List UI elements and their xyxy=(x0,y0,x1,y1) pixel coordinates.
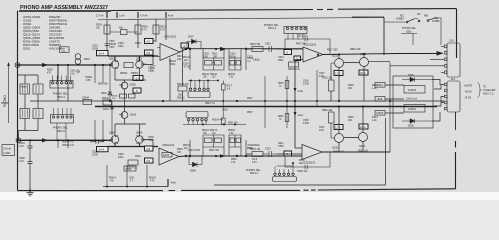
junction dots rails xyxy=(109,100,111,102)
svg-text:4.7mA: 4.7mA xyxy=(140,14,148,18)
border right xyxy=(456,9,457,189)
voltage box 23.6 xyxy=(359,70,368,75)
resistor R514 xyxy=(128,160,138,165)
svg-text:1mA: 1mA xyxy=(119,14,125,18)
capacitor C50x box R xyxy=(33,109,43,119)
op-amp IC502(1/2) xyxy=(159,148,179,165)
svg-text:Q511: Q511 xyxy=(332,55,339,58)
svg-text:S501-2: S501-2 xyxy=(177,97,185,99)
svg-text:4.5: 4.5 xyxy=(146,159,151,163)
capacitor C503 label + flag xyxy=(77,70,80,73)
EQ network 2 xyxy=(229,49,241,70)
svg-text:C535: C535 xyxy=(247,147,253,150)
wire switch feeds xyxy=(384,18,441,45)
svg-text:0.01: 0.01 xyxy=(19,160,24,163)
power rail top xyxy=(98,18,384,56)
svg-text:D507: D507 xyxy=(188,36,194,39)
svg-text:1800p: 1800p xyxy=(253,59,260,62)
svg-text:C5-8: C5-8 xyxy=(252,159,258,161)
current arrow 4mA bottom xyxy=(167,179,169,187)
capacitor C514 shunt xyxy=(189,49,191,70)
connector PHA-8 box L xyxy=(20,84,30,94)
svg-text:R515 15k: R515 15k xyxy=(250,43,261,46)
op-amp IC502(2/2) xyxy=(302,145,322,160)
arrow R input xyxy=(42,138,48,142)
svg-text:MC: MC xyxy=(417,13,421,16)
svg-text:S501: S501 xyxy=(23,47,31,51)
svg-text:R515A: R515A xyxy=(228,73,235,76)
svg-text:+B18: +B18 xyxy=(377,98,383,101)
connector S501-1 xyxy=(50,81,73,89)
svg-text:-14.4: -14.4 xyxy=(98,148,105,152)
svg-text:SUB80: SUB80 xyxy=(432,20,440,23)
svg-text:23.6: 23.6 xyxy=(360,71,366,75)
wires FET stage xyxy=(115,56,153,101)
svg-text:IC502(2/2): IC502(2/2) xyxy=(303,161,315,165)
svg-text:4.5: 4.5 xyxy=(146,40,151,44)
svg-text:-8: -8 xyxy=(135,89,138,93)
svg-text:R541A: R541A xyxy=(109,177,116,180)
svg-text:C532: C532 xyxy=(163,154,170,157)
capacitor C542 box xyxy=(124,166,136,171)
svg-text:R527: R527 xyxy=(247,97,253,100)
svg-text:1/50: 1/50 xyxy=(148,139,153,142)
connector S501-2 lower xyxy=(186,112,208,118)
svg-text:MM: MM xyxy=(424,15,428,18)
voltage box -14.4 xyxy=(97,51,109,56)
capacitor C503A symbol xyxy=(90,140,104,145)
rail drop lower xyxy=(294,107,296,149)
border top xyxy=(111,9,457,11)
svg-text:R550A 100: R550A 100 xyxy=(333,151,345,154)
svg-text:0.039: 0.039 xyxy=(303,83,309,85)
border bottom xyxy=(18,189,456,191)
rail drop R505 xyxy=(137,20,139,49)
svg-text:R547 68k: R547 68k xyxy=(296,44,307,46)
svg-text:Q502: Q502 xyxy=(136,58,143,61)
diode D503 xyxy=(108,65,112,101)
svg-text:330k: 330k xyxy=(170,64,176,66)
resistor R507 45k xyxy=(121,30,128,35)
transistor Q512 xyxy=(360,58,369,67)
svg-text:R524: R524 xyxy=(135,155,141,158)
svg-text:1/25: 1/25 xyxy=(319,129,324,132)
svg-text:4.7k: 4.7k xyxy=(160,29,165,32)
boxed label UN5-A xyxy=(375,83,385,88)
boxed label UN5-B xyxy=(375,111,385,116)
svg-text:4mA: 4mA xyxy=(168,14,174,18)
wire x317 drop xyxy=(316,70,318,107)
arrow into CN xyxy=(437,51,444,56)
wires to PHA boxes xyxy=(18,75,39,101)
svg-text:C509A: C509A xyxy=(85,76,92,79)
svg-text:R551: R551 xyxy=(278,116,284,118)
node out3 xyxy=(185,155,187,157)
svg-text:IC501(2/2): IC501(2/2) xyxy=(304,43,316,47)
capacitor C504A box xyxy=(83,100,92,105)
rail mid thick xyxy=(95,106,437,108)
connector PHA-8 box R xyxy=(20,109,30,119)
transistor Q511 xyxy=(335,59,344,68)
svg-text:R516A 6.2k: R516A 6.2k xyxy=(288,68,301,71)
capacitor C532 box xyxy=(162,153,172,158)
wire drain bus xyxy=(108,55,158,57)
svg-text:4.7k: 4.7k xyxy=(142,29,147,32)
svg-text:SUB80: SUB80 xyxy=(396,18,404,21)
capacitor C512 feedback xyxy=(285,37,330,55)
junction dots output lines xyxy=(236,155,238,157)
connector S501-2 xyxy=(188,92,210,98)
svg-text:0.039: 0.039 xyxy=(303,123,309,125)
wires Q511 Q512 xyxy=(339,54,390,101)
svg-text:100: 100 xyxy=(177,151,182,154)
svg-text:100p: 100p xyxy=(118,156,124,159)
op-amp IC501(1/2) xyxy=(160,44,180,61)
svg-text:R538A: R538A xyxy=(228,129,235,132)
svg-text:C503A 0.01: C503A 0.01 xyxy=(62,144,75,147)
svg-text:5.2V: 5.2V xyxy=(252,162,257,164)
wire L input xyxy=(18,64,109,66)
bottom component row xyxy=(103,186,168,188)
wire op-amp1 output xyxy=(180,49,303,52)
svg-text:Q514: Q514 xyxy=(359,145,366,148)
svg-text:R506 56k: R506 56k xyxy=(98,84,109,86)
measurement box 2.5mV xyxy=(2,145,15,156)
svg-text:R513A: R513A xyxy=(202,73,209,76)
svg-text:C546 1mA: C546 1mA xyxy=(406,98,417,101)
svg-text:390p: 390p xyxy=(278,59,284,62)
svg-text:R551 100: R551 100 xyxy=(358,151,369,153)
svg-text:R548: R548 xyxy=(299,160,305,162)
input network R515 xyxy=(252,47,263,52)
svg-text:0.01: 0.01 xyxy=(19,145,24,148)
IC504 xyxy=(404,105,425,113)
svg-text:R512A: R512A xyxy=(183,56,190,59)
voltage box 0 in2 xyxy=(284,50,292,55)
svg-text:C514: C514 xyxy=(183,64,189,66)
resistor boxes under Q509 xyxy=(120,94,127,98)
inductor L501 xyxy=(60,47,70,53)
arrow vertical phono xyxy=(8,63,10,123)
svg-text:4mA: 4mA xyxy=(298,113,304,117)
svg-text:R537A: R537A xyxy=(210,129,217,132)
svg-text:4mA: 4mA xyxy=(298,89,304,93)
svg-text:Q513: Q513 xyxy=(332,147,339,150)
svg-text:4.5: 4.5 xyxy=(146,147,151,151)
transistor Q514 xyxy=(359,133,368,142)
inner bottom line xyxy=(214,118,386,185)
node PHONO input L xyxy=(15,63,20,68)
svg-text:C525 47/25: C525 47/25 xyxy=(188,150,201,152)
svg-text:R514A: R514A xyxy=(210,73,217,76)
misc wires left mid xyxy=(58,58,170,101)
current arrow 1mA xyxy=(116,12,118,18)
svg-text:D508: D508 xyxy=(190,170,196,173)
svg-text:160: 160 xyxy=(348,119,353,122)
voltage box -8 xyxy=(133,88,141,93)
R channel input node xyxy=(16,138,21,143)
svg-text:160: 160 xyxy=(348,87,353,90)
rail drop 1mA xyxy=(294,61,296,107)
wires lower FET stage xyxy=(115,101,153,147)
rail drop R503 xyxy=(106,20,108,51)
border segment under CN1 xyxy=(455,112,457,130)
capacitor C516 shunt xyxy=(245,49,247,70)
svg-text:R506A: R506A xyxy=(120,72,128,75)
svg-text:1.2k: 1.2k xyxy=(372,87,377,90)
svg-text:S501: S501 xyxy=(406,30,412,33)
svg-text:1/25: 1/25 xyxy=(319,75,324,78)
diode D505 xyxy=(402,77,432,81)
svg-text:C504A: C504A xyxy=(82,97,89,100)
arrow mid xyxy=(220,47,227,51)
svg-text:C526: C526 xyxy=(222,109,228,112)
svg-text:C531: C531 xyxy=(265,148,271,151)
svg-text:D506: D506 xyxy=(408,125,414,128)
bus lower bias xyxy=(183,124,246,126)
svg-text:C532 15p: C532 15p xyxy=(297,170,308,173)
voltage box 12.6 xyxy=(334,71,343,76)
svg-text:1800p: 1800p xyxy=(253,144,260,147)
capacitor C534 shunt xyxy=(189,140,191,156)
svg-text:R531 15k: R531 15k xyxy=(228,122,239,124)
capacitor C531 xyxy=(263,151,278,157)
svg-text:IC504: IC504 xyxy=(408,107,416,111)
svg-text:1/50: 1/50 xyxy=(148,70,153,73)
svg-text:C541: C541 xyxy=(129,178,135,180)
svg-text:ASSY 1-2: ASSY 1-2 xyxy=(483,92,494,95)
svg-text:100: 100 xyxy=(177,58,182,61)
svg-text:12.6: 12.6 xyxy=(335,126,341,130)
brace xyxy=(478,83,482,98)
svg-text:390p: 390p xyxy=(278,142,284,145)
svg-text:UN5-B: UN5-B xyxy=(376,112,384,115)
wires Q513 Q514 xyxy=(339,107,363,153)
IC503 xyxy=(404,86,425,94)
wire drain bus lower xyxy=(108,146,158,148)
wires Q511 Q513 bases xyxy=(331,63,334,138)
svg-text:R525 4.5: R525 4.5 xyxy=(205,102,215,105)
svg-text:IC501(1/2): IC501(1/2) xyxy=(164,35,176,39)
voltage box 0 in4 xyxy=(284,151,292,156)
resistor R517 xyxy=(221,84,225,90)
svg-text:S501-3: S501-3 xyxy=(268,27,277,30)
regulator block outline xyxy=(393,76,433,128)
resistor R516A box xyxy=(289,62,299,67)
title underline xyxy=(19,10,111,11)
resistor R550 vertical xyxy=(286,76,288,128)
svg-text:R512A 47k: R512A 47k xyxy=(177,83,190,86)
svg-text:PHONO AMP ASSEMBLY AWZ2327: PHONO AMP ASSEMBLY AWZ2327 xyxy=(20,5,108,11)
transistor Q513 xyxy=(335,134,344,143)
svg-text:C518: C518 xyxy=(303,81,309,83)
transistor Q510 xyxy=(121,112,128,119)
parts list xyxy=(23,15,68,51)
wire op-amp2 output xyxy=(323,54,442,55)
svg-text:R537: R537 xyxy=(247,111,253,114)
arrow L input xyxy=(42,63,48,67)
svg-text:R550: R550 xyxy=(278,83,284,85)
wire drops under L input xyxy=(58,65,68,79)
EQ network 1 xyxy=(203,49,224,70)
svg-text:-14.4: -14.4 xyxy=(98,52,105,56)
wire x265 cross xyxy=(264,76,266,128)
svg-text:R534A: R534A xyxy=(183,144,190,147)
transistor Q503 xyxy=(111,136,119,144)
transistor Q501 xyxy=(111,61,119,69)
svg-text:S501-4: S501-4 xyxy=(250,172,259,175)
capacitor C511 xyxy=(263,46,278,52)
current arrow 2.7mA xyxy=(106,12,108,18)
capacitor C509A drop xyxy=(95,65,103,83)
svg-text:Q501: Q501 xyxy=(109,58,116,61)
wire R input xyxy=(19,139,109,141)
svg-text:R504: R504 xyxy=(135,42,141,45)
diode D504 xyxy=(110,101,114,135)
svg-text:100p: 100p xyxy=(118,45,124,48)
svg-text:47/25: 47/25 xyxy=(184,66,190,68)
boxed label +B18 xyxy=(375,97,385,102)
svg-text:10/50: 10/50 xyxy=(92,154,99,157)
resistor R504A box xyxy=(103,100,112,105)
wires into CN1 xyxy=(390,46,444,152)
svg-text:R531 330: R531 330 xyxy=(209,150,220,152)
white page margin below schematic xyxy=(0,192,499,200)
voltage box 23.6 lower xyxy=(359,124,368,129)
voltage box 4.5 b xyxy=(145,50,154,55)
svg-text:1/50: 1/50 xyxy=(86,80,91,82)
resistor R522 xyxy=(329,80,335,91)
transistor Q509 xyxy=(121,82,128,89)
svg-text:12.6: 12.6 xyxy=(335,72,341,76)
voltage box 0 in2b xyxy=(294,56,301,61)
svg-text:R542A: R542A xyxy=(149,177,156,180)
svg-text:4mA: 4mA xyxy=(171,181,177,185)
diode D508 bypass loop xyxy=(189,156,202,165)
connector S501-4 xyxy=(273,177,297,182)
svg-text:R536A: R536A xyxy=(202,129,209,132)
op-amp2 IC501(2/2) xyxy=(303,47,323,62)
svg-text:IC502(1/2): IC502(1/2) xyxy=(162,143,174,147)
svg-text:D503: D503 xyxy=(101,92,107,95)
current arrow 4mA xyxy=(165,12,167,18)
voltage box 4.5 d xyxy=(145,158,154,163)
connector CN1 upper section xyxy=(447,43,460,77)
connector S501-1 lower xyxy=(51,115,74,124)
wire drops under R input xyxy=(58,140,68,148)
resistor R542 xyxy=(329,112,335,123)
rail mid thin xyxy=(30,100,444,102)
wire 4mA rail drop xyxy=(165,20,167,41)
resistor R506 between FETs xyxy=(124,63,133,68)
voltage box 12.6 lower xyxy=(334,125,343,130)
voltage box -1.6 xyxy=(133,76,143,81)
svg-text:CN1: CN1 xyxy=(449,40,455,43)
transistor Q502 xyxy=(136,61,144,69)
voltage box 14.4 lower xyxy=(97,147,109,152)
wires regulator to CN xyxy=(385,80,444,122)
svg-text:R517: R517 xyxy=(227,86,233,88)
svg-text:R501: R501 xyxy=(84,58,90,61)
resistor R512A xyxy=(178,86,187,91)
svg-text:R518 100: R518 100 xyxy=(350,48,361,51)
svg-text:S501-5: S501-5 xyxy=(57,130,66,133)
svg-text:Q509: Q509 xyxy=(130,84,137,87)
svg-text:SEL: SEL xyxy=(178,95,183,97)
EQ network 4 xyxy=(229,135,241,156)
voltage box 0 xyxy=(181,43,189,48)
connector S501-3 top xyxy=(284,27,307,34)
svg-text:D504: D504 xyxy=(103,108,109,111)
svg-text:C538: C538 xyxy=(303,120,309,122)
voltage box 4.5 c xyxy=(145,146,154,151)
diode D506 xyxy=(402,119,432,123)
svg-text:PL2: PL2 xyxy=(451,79,456,81)
capacitor C536 shunt xyxy=(245,140,247,156)
capacitor C505 box xyxy=(33,84,43,94)
svg-text:MUTE: MUTE xyxy=(465,84,473,88)
arrow mid lower xyxy=(220,154,226,158)
svg-text:7400: 7400 xyxy=(109,46,115,49)
svg-text:R546: R546 xyxy=(231,159,237,161)
voltage box 4.5 a xyxy=(145,39,154,44)
svg-text:R530A 45k: R530A 45k xyxy=(212,119,224,122)
svg-text:0.28V: 0.28V xyxy=(3,151,10,155)
border left xyxy=(17,11,19,191)
node out1 xyxy=(185,48,187,50)
svg-text:IC503: IC503 xyxy=(408,88,416,92)
svg-text:Q510: Q510 xyxy=(130,114,137,117)
bias bus S501-2 xyxy=(188,80,218,82)
svg-text:C542: C542 xyxy=(126,168,132,171)
ground xyxy=(27,187,34,196)
svg-text:10/50: 10/50 xyxy=(92,48,99,51)
connector CN1 lower section xyxy=(447,81,460,112)
capacitor C532f feedback xyxy=(285,152,330,169)
svg-text:470: 470 xyxy=(47,72,52,75)
svg-text:R517 560: R517 560 xyxy=(327,49,338,52)
svg-text:+B 25: +B 25 xyxy=(465,90,473,94)
svg-text:R504A: R504A xyxy=(102,97,109,100)
svg-text:R542 33k: R542 33k xyxy=(322,109,333,112)
wire into op-amp2 xyxy=(246,49,303,60)
inner box top right xyxy=(352,17,384,55)
svg-text:C512 15p: C512 15p xyxy=(297,35,308,38)
svg-text:PHONO: PHONO xyxy=(3,95,7,107)
svg-text:C511: C511 xyxy=(265,43,271,46)
EQ network 3 xyxy=(203,135,224,156)
svg-text:0.01: 0.01 xyxy=(70,73,75,76)
svg-text:PHA-8: PHA-8 xyxy=(21,86,28,89)
svg-text:1.2k: 1.2k xyxy=(372,119,377,122)
transistor Q504 xyxy=(136,136,144,144)
svg-text:R506A: R506A xyxy=(131,72,139,75)
rail drop R512 xyxy=(153,20,156,42)
current arrow 4.7mA xyxy=(137,12,139,18)
input network R535 xyxy=(252,152,263,157)
svg-text:2.7mA: 2.7mA xyxy=(96,14,104,18)
svg-text:4.5: 4.5 xyxy=(146,51,151,55)
svg-text:C533: C533 xyxy=(278,145,284,148)
svg-text:-B 25: -B 25 xyxy=(465,96,472,100)
svg-text:D505: D505 xyxy=(408,74,414,77)
diode D507 bypass loop xyxy=(187,42,201,49)
wire op-amp4 output xyxy=(322,151,390,153)
resistor R537 vertical xyxy=(221,118,225,124)
wire op-amp3 output xyxy=(179,155,302,158)
